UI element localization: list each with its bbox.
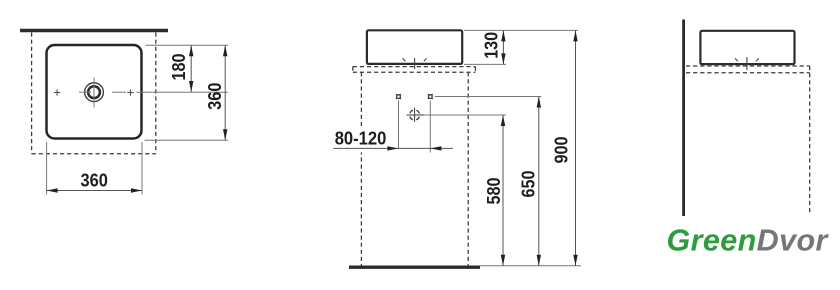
svg-text:80-120: 80-120 <box>335 129 387 149</box>
svg-text:GreenDvor: GreenDvor <box>667 224 830 258</box>
svg-text:580: 580 <box>484 178 504 205</box>
svg-text:360: 360 <box>205 83 225 110</box>
svg-text:650: 650 <box>519 171 539 198</box>
svg-text:130: 130 <box>481 32 501 59</box>
svg-text:360: 360 <box>81 170 108 190</box>
svg-text:180: 180 <box>169 54 189 81</box>
svg-text:900: 900 <box>552 137 572 164</box>
